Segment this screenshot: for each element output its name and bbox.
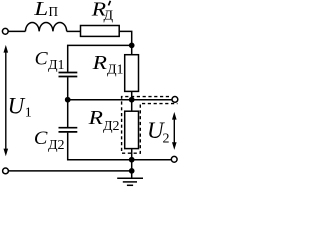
ground stem <box>131 171 133 178</box>
voltage arrow U1 <box>4 45 9 156</box>
capacitor Cд1 plate top <box>59 72 78 74</box>
svg-text:R: R <box>91 52 107 74</box>
terminal input top-left <box>2 28 8 34</box>
wire node D down to ground rail node E <box>131 160 133 171</box>
wire inductor to resistor R'д <box>67 30 81 32</box>
svg-text:Д1: Д1 <box>48 58 65 73</box>
terminal output top-right <box>172 97 178 103</box>
wire top connector node A to capacitor branch <box>68 45 132 72</box>
ground bar 2 <box>123 181 137 183</box>
wire R'д to corner and down to node A <box>119 31 132 45</box>
wire Rд2 down to node D <box>131 149 133 160</box>
svg-text:2: 2 <box>163 132 170 147</box>
svg-text:1: 1 <box>25 106 32 121</box>
wire Cд2 down and right to node D <box>68 133 171 160</box>
wire node B down to Cд2 <box>67 100 69 127</box>
svg-text:U: U <box>8 94 26 119</box>
node E junction dot <box>130 169 134 173</box>
wire bottom rail from input terminal to node E <box>9 170 132 172</box>
svg-text:Д2: Д2 <box>48 138 65 153</box>
svg-text:Д1: Д1 <box>107 63 124 78</box>
svg-text:Д: Д <box>104 8 114 23</box>
svg-text:L: L <box>33 0 48 20</box>
wire Cд1 to node B <box>67 77 69 100</box>
wire Rд1 to Rд2 through node C <box>131 91 133 111</box>
ground bar 1 <box>117 177 143 179</box>
resistor Rд2 body <box>125 111 139 148</box>
node D junction dot <box>130 158 134 162</box>
node B junction dot <box>66 98 70 102</box>
node C junction dot <box>130 98 134 102</box>
svg-text:C: C <box>35 49 48 70</box>
terminal input bottom-left <box>3 168 9 174</box>
wire node A down to Rд1 <box>131 45 133 54</box>
capacitor Cд1 plate bottom <box>59 76 78 78</box>
node A junction dot <box>130 43 134 47</box>
voltage arrow U2 <box>172 112 177 150</box>
wire middle connector node B to output terminal <box>68 99 172 101</box>
resistor Rд1 body <box>125 55 139 92</box>
capacitor Cд2 plate top <box>59 127 78 129</box>
terminal output bottom-right <box>171 156 177 162</box>
svg-text:Д2: Д2 <box>103 119 120 134</box>
capacitor Cд2 plate bottom <box>59 131 78 133</box>
wire top from input terminal to inductor <box>8 30 25 32</box>
resistor R'д body <box>81 26 120 37</box>
inductor L_P winding <box>25 22 66 31</box>
svg-text:R: R <box>87 107 103 129</box>
svg-text:C: C <box>34 128 48 149</box>
dashed box around Rд2 with dashed leads to output terminal <box>122 97 178 154</box>
ground bar 3 <box>127 184 133 186</box>
svg-text:П: П <box>49 5 59 20</box>
